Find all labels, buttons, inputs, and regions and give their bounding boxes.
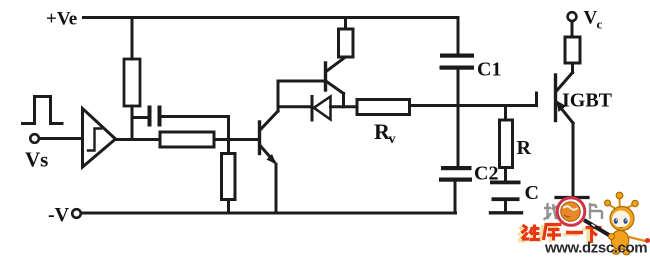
svg-text:C1: C1 [477,59,501,81]
svg-text:C2: C2 [474,163,498,185]
svg-text:-V: -V [48,204,70,226]
svg-text:V: V [584,8,598,29]
svg-text:v: v [389,132,396,147]
svg-text:Vs: Vs [25,148,48,172]
svg-text:+Ve: +Ve [46,9,77,30]
svg-text:C: C [525,182,539,204]
svg-text:IGBT: IGBT [562,90,613,112]
svg-text:R: R [517,137,532,159]
svg-text:c: c [597,17,603,32]
svg-text:www.dzsc.com: www.dzsc.com [544,240,647,257]
